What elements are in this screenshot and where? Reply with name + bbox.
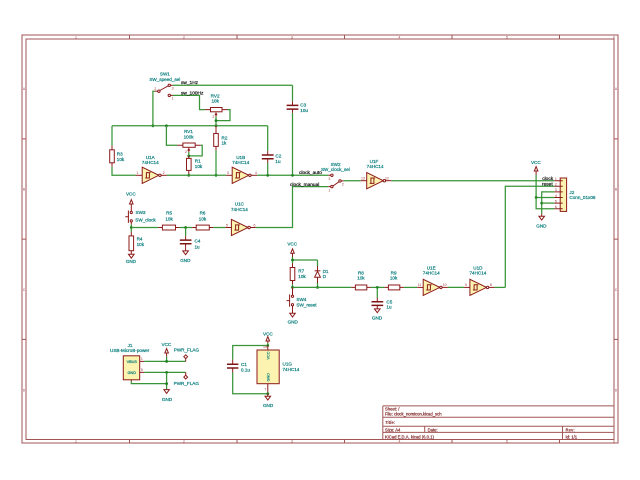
junction R2 at output row <box>215 174 218 177</box>
svg-text:SW_clock_sel: SW_clock_sel <box>321 167 350 172</box>
wire VCC to J2 pin4 <box>536 175 554 198</box>
wire R2 bottom <box>215 150 217 175</box>
svg-text:Date:: Date: <box>428 427 438 432</box>
svg-text:1k: 1k <box>222 140 228 145</box>
wire reset to J2 <box>505 186 554 287</box>
svg-text:2: 2 <box>555 183 557 187</box>
wire VCC to U1G <box>267 343 269 346</box>
svg-text:74HC14: 74HC14 <box>232 160 249 165</box>
svg-text:8: 8 <box>490 283 492 287</box>
wire C1 bottom <box>233 373 268 394</box>
svg-text:9: 9 <box>465 283 467 287</box>
svg-text:10: 10 <box>443 283 447 287</box>
svg-text:1u: 1u <box>386 305 392 310</box>
wire U1E to U1D <box>448 286 464 288</box>
svg-text:12: 12 <box>385 177 389 181</box>
capacitor C1 0.1u <box>227 360 250 373</box>
svg-text:10k: 10k <box>211 98 219 103</box>
svg-text:R4: R4 <box>137 236 143 241</box>
svg-text:J2: J2 <box>569 190 574 195</box>
capacitor C3 10u <box>287 101 309 113</box>
svg-text:VCC: VCC <box>126 191 136 196</box>
svg-text:U1C: U1C <box>235 201 245 206</box>
wire RV1 riser <box>166 126 177 145</box>
junction VCC J2 <box>535 196 538 199</box>
svg-text:RV1: RV1 <box>184 129 193 134</box>
wire feedback row <box>112 125 268 127</box>
wire R6 to U1C <box>213 227 225 229</box>
capacitor C5 1u <box>372 298 393 310</box>
svg-text:74HC14: 74HC14 <box>469 270 486 275</box>
svg-text:C4: C4 <box>195 239 201 244</box>
ground below SW4 <box>288 309 299 324</box>
svg-text:SW1: SW1 <box>160 72 170 77</box>
svg-text:10k: 10k <box>117 157 125 162</box>
resistor R6 10k <box>192 211 213 230</box>
svg-text:3: 3 <box>328 177 330 181</box>
switch SW4 SW_reset <box>287 287 318 309</box>
op-amp U1F 74HC14 inverter <box>361 159 392 189</box>
wire R7 bottom <box>292 284 294 287</box>
svg-text:USB-MicroB-power: USB-MicroB-power <box>110 348 150 353</box>
junction R1 at output row <box>187 174 190 177</box>
svg-text:1: 1 <box>75 440 77 444</box>
wire C1 top <box>233 346 268 360</box>
ground below J2 <box>536 214 547 229</box>
ground below C5 <box>372 309 383 321</box>
sheet outer border <box>22 35 618 443</box>
svg-text:5: 5 <box>226 223 228 227</box>
wire SW3 row to R5 <box>131 227 158 229</box>
row ticks left <box>22 139 26 340</box>
svg-text:1: 1 <box>75 36 77 40</box>
svg-text:100k: 100k <box>184 135 195 140</box>
svg-text:R1: R1 <box>195 158 201 163</box>
wire SW1 common to feedback row <box>153 91 155 126</box>
svg-text:GND: GND <box>536 224 547 229</box>
connector J2 Conn_01x06 <box>554 177 595 211</box>
svg-text:GND: GND <box>162 397 173 402</box>
wire U1A output row <box>167 174 226 176</box>
svg-text:11: 11 <box>418 283 422 287</box>
title block text <box>385 407 578 440</box>
svg-text:SW_clock: SW_clock <box>135 218 156 223</box>
svg-text:10k: 10k <box>357 276 365 281</box>
svg-text:Conn_01x06: Conn_01x06 <box>569 195 595 200</box>
svg-text:10u: 10u <box>300 108 308 113</box>
potentiometer RV1 100k <box>177 129 201 154</box>
wire GND to J2 pin3 <box>542 192 555 214</box>
sheet inner border <box>26 39 614 440</box>
wire U1D output to reset riser <box>495 286 506 288</box>
wire clock to J2 <box>391 180 554 182</box>
svg-text:VCC: VCC <box>531 160 541 165</box>
svg-text:4: 4 <box>255 171 257 175</box>
svg-text:74HC14: 74HC14 <box>283 367 300 372</box>
svg-text:2: 2 <box>185 150 187 154</box>
resistor R2 1k <box>214 126 228 151</box>
switch SW1 SW_speed_sel <box>149 72 180 101</box>
junction R7 at reset row <box>291 286 294 289</box>
power flag PWR_FLAG (GND) <box>174 372 200 386</box>
svg-text:clock_auto: clock_auto <box>299 170 322 176</box>
wire sw_100Hz <box>173 95 205 109</box>
svg-text:7: 7 <box>264 387 266 391</box>
svg-text:R7: R7 <box>298 269 304 274</box>
svg-text:R6: R6 <box>200 211 206 216</box>
wire R4 riser <box>130 228 132 232</box>
svg-text:Title:: Title: <box>385 420 396 425</box>
svg-text:3: 3 <box>291 440 293 444</box>
svg-text:U1G: U1G <box>283 362 293 367</box>
wire reset row <box>293 286 352 288</box>
svg-text:13: 13 <box>361 177 365 181</box>
svg-text:SW2: SW2 <box>331 162 341 167</box>
wire GND to J2 pin5 <box>542 202 555 204</box>
svg-text:6: 6 <box>613 36 615 40</box>
wire R1 bottom <box>188 174 190 175</box>
junction GND J2 <box>540 202 543 205</box>
power VCC (J1) <box>162 342 172 357</box>
junction SW3/R4 <box>130 226 133 229</box>
wire VBUS row <box>144 357 186 362</box>
svg-text:3: 3 <box>172 87 174 91</box>
svg-text:C3: C3 <box>300 102 306 107</box>
svg-text:GND: GND <box>128 371 137 375</box>
svg-text:5: 5 <box>141 368 143 372</box>
op-amp U1C 74HC14 inverter <box>225 201 255 235</box>
junction C4 <box>184 226 187 229</box>
svg-text:6: 6 <box>555 205 557 209</box>
svg-text:GND: GND <box>266 373 270 382</box>
diode D1 <box>315 266 329 283</box>
power VCC (J2) <box>531 160 541 175</box>
resistor R1 10k <box>187 156 203 174</box>
svg-text:R5: R5 <box>166 211 172 216</box>
svg-text:10k: 10k <box>137 242 145 247</box>
wire C4 riser <box>185 228 187 237</box>
svg-text:SW4: SW4 <box>296 297 306 302</box>
svg-text:10k: 10k <box>195 164 203 169</box>
svg-text:GND: GND <box>372 316 383 321</box>
resistor R5 10k <box>158 211 179 230</box>
svg-text:5: 5 <box>555 199 557 203</box>
svg-text:VCC: VCC <box>287 241 297 246</box>
svg-text:SW_reset: SW_reset <box>296 303 317 308</box>
wire RV2 right loop <box>216 110 230 121</box>
resistor R7 10k <box>290 264 306 285</box>
junction C5 <box>376 286 379 289</box>
svg-text:2: 2 <box>154 87 156 91</box>
connector J1 USB-MicroB-power <box>110 343 150 382</box>
svg-text:1: 1 <box>136 171 138 175</box>
capacitor C4 1u <box>180 236 201 250</box>
column ticks top <box>130 35 560 39</box>
svg-text:4: 4 <box>399 440 401 444</box>
svg-text:Rev:: Rev: <box>566 427 576 432</box>
svg-text:3: 3 <box>291 36 293 40</box>
svg-text:5: 5 <box>506 440 508 444</box>
svg-text:1u: 1u <box>275 159 281 164</box>
svg-text:2: 2 <box>342 182 344 186</box>
wire clock_manual <box>256 187 328 228</box>
wire J1 shield to GND <box>131 372 166 389</box>
wire sw_1Hz <box>173 84 293 86</box>
op-amp U1B 74HC14 inverter <box>226 155 257 183</box>
capacitor C2 1u <box>262 151 282 164</box>
resistor R8 10k <box>351 271 371 290</box>
svg-text:PWR_FLAG: PWR_FLAG <box>174 381 200 386</box>
svg-text:1: 1 <box>141 357 143 361</box>
wire RV1 right loop <box>189 145 202 156</box>
svg-text:VCC: VCC <box>162 342 172 347</box>
svg-text:clock: clock <box>542 176 554 182</box>
svg-text:3: 3 <box>555 188 557 192</box>
wire RV2 wiper down <box>215 117 217 126</box>
power VCC (reset) <box>287 241 297 257</box>
title block frame <box>383 406 614 440</box>
wire C5 riser <box>376 287 378 298</box>
ground below R4 <box>126 254 137 264</box>
svg-text:SW3: SW3 <box>136 210 146 215</box>
ground below J1 <box>162 390 173 403</box>
svg-text:File: clock_nomicon.kicad_sch: File: clock_nomicon.kicad_sch <box>385 412 442 417</box>
svg-text:reset: reset <box>542 182 553 188</box>
svg-text:74HC14: 74HC14 <box>367 164 384 169</box>
svg-text:6: 6 <box>254 223 256 227</box>
svg-text:C2: C2 <box>275 154 281 159</box>
junction D1 at reset row <box>316 286 319 289</box>
svg-text:clock_manual: clock_manual <box>290 182 319 188</box>
svg-text:GND: GND <box>180 258 191 263</box>
svg-text:1u: 1u <box>195 245 201 250</box>
switch SW2 SW_clock_sel <box>321 162 350 193</box>
resistor R3 10k <box>110 146 125 167</box>
wire R8 to R9 <box>371 286 384 288</box>
svg-text:5: 5 <box>506 36 508 40</box>
svg-text:VBUS: VBUS <box>127 360 138 364</box>
svg-text:GND: GND <box>263 403 274 408</box>
svg-text:Id: 1/1: Id: 1/1 <box>566 434 578 439</box>
svg-text:14: 14 <box>263 345 267 349</box>
wire R9 to U1E <box>404 286 417 288</box>
wire VCC to R7/D1 <box>293 257 318 266</box>
svg-text:10k: 10k <box>199 216 207 221</box>
svg-text:SW_speed_sel: SW_speed_sel <box>149 77 180 82</box>
svg-text:1: 1 <box>172 97 174 101</box>
svg-text:3: 3 <box>227 171 229 175</box>
svg-text:2: 2 <box>183 440 185 444</box>
resistor R4 10k <box>129 232 145 254</box>
junction VCC reset <box>291 259 294 262</box>
svg-text:KiCad E.D.A. kicad (6.0.1): KiCad E.D.A. kicad (6.0.1) <box>385 434 434 439</box>
wire GND row <box>144 371 186 373</box>
column numbers top <box>75 36 615 40</box>
svg-text:1: 1 <box>328 188 330 192</box>
junction C3 at output row <box>291 174 294 177</box>
wire C2 riser <box>267 126 269 176</box>
svg-text:sw_1Hz: sw_1Hz <box>181 80 199 86</box>
svg-text:74HC14: 74HC14 <box>142 160 159 165</box>
wire VCC to J2 pin6 <box>536 198 554 209</box>
svg-text:2: 2 <box>183 36 185 40</box>
junction GND J1 <box>165 371 168 374</box>
svg-text:10k: 10k <box>390 276 398 281</box>
svg-text:4: 4 <box>555 194 557 198</box>
wire SW2 common to U1F <box>344 180 361 182</box>
ground below C4 <box>180 248 191 263</box>
wire R5 to R6 <box>180 227 193 229</box>
power unit U1G 74HC14 <box>257 345 300 394</box>
svg-text:6: 6 <box>613 440 615 444</box>
wire feedback row down to R3 <box>111 126 113 146</box>
wire RV1 wiper to R1 <box>188 152 190 158</box>
svg-text:GND: GND <box>288 319 299 324</box>
svg-text:Size: A4: Size: A4 <box>385 427 401 432</box>
svg-text:VCC: VCC <box>263 331 273 336</box>
wire U1B output to SW2 <box>257 174 328 176</box>
op-amp U1E 74HC14 inverter <box>417 265 448 295</box>
junction RV1 riser <box>165 124 168 127</box>
switch SW3 SW_clock <box>125 210 156 225</box>
ground below U1G <box>263 394 274 408</box>
wire C3 riser <box>292 85 294 175</box>
power VCC (U1G) <box>263 331 273 343</box>
junction VCC J1 <box>165 360 168 363</box>
svg-text:1: 1 <box>555 177 557 181</box>
svg-text:R3: R3 <box>117 151 123 156</box>
svg-text:0.1u: 0.1u <box>241 367 250 372</box>
junction RV1 wiper <box>187 155 190 158</box>
row letters left <box>23 87 26 392</box>
junction RV2 at feedback row <box>215 124 218 127</box>
wire D1 bottom <box>317 283 319 287</box>
resistor R9 10k <box>384 271 404 290</box>
svg-text:4: 4 <box>399 36 401 40</box>
junction U1G GND <box>266 392 269 395</box>
svg-text:2: 2 <box>212 115 214 119</box>
power VCC (SW3) <box>126 191 136 211</box>
svg-text:GND: GND <box>126 259 137 264</box>
row letters right <box>615 87 618 392</box>
junction RV2 loop <box>215 119 218 122</box>
column numbers bottom <box>75 440 615 444</box>
svg-text:2: 2 <box>163 171 165 175</box>
column ticks bottom <box>130 440 560 444</box>
svg-text:PWR_FLAG: PWR_FLAG <box>174 347 200 352</box>
potentiometer RV2 10k <box>205 93 228 119</box>
junction shield GND <box>165 382 168 385</box>
svg-text:74HC14: 74HC14 <box>231 207 248 212</box>
svg-text:VCC: VCC <box>266 351 270 359</box>
wire SW3 to row <box>130 225 132 228</box>
op-amp U1D 74HC14 inverter <box>464 265 495 295</box>
junction U1G VCC <box>266 344 269 347</box>
op-amp U1A 74HC14 inverter <box>136 155 167 183</box>
svg-text:10k: 10k <box>298 274 306 279</box>
power flag PWR_FLAG (VCC) <box>174 347 200 361</box>
svg-text:10k: 10k <box>165 216 173 221</box>
junction C2 at output row <box>266 174 269 177</box>
junction SW1 at feedback row <box>152 124 155 127</box>
svg-text:sw_100Hz: sw_100Hz <box>181 91 204 97</box>
svg-text:74HC14: 74HC14 <box>423 270 440 275</box>
row ticks right <box>614 139 618 340</box>
wire R3 bottom to input row <box>112 167 136 176</box>
